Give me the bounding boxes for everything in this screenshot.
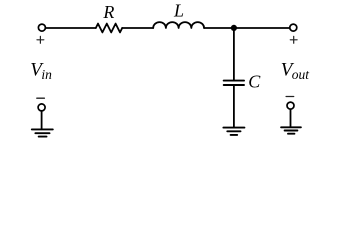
polarity - (Vout) [286, 96, 294, 98]
output terminal (bottom, Vout-) [287, 102, 294, 109]
node junction (inductor/capacitor/output) [231, 25, 237, 31]
inductor L [153, 22, 204, 28]
wire Vin- terminal to ground [41, 111, 43, 129]
polarity - (Vin) [37, 97, 45, 99]
wire Vout- terminal to ground [290, 109, 292, 127]
input terminal (bottom, Vin-) [38, 104, 45, 111]
capacitor C [224, 81, 244, 85]
resistor R [96, 24, 122, 33]
svg-text:Vout: Vout [281, 60, 311, 82]
input terminal (top, Vin+) [38, 24, 45, 31]
wire resistor to inductor [122, 27, 153, 29]
svg-text:R: R [102, 2, 114, 22]
svg-text:Vin: Vin [30, 60, 52, 82]
wire junction to capacitor [233, 29, 235, 80]
ground (output) [281, 127, 301, 133]
svg-text:L: L [173, 1, 184, 21]
svg-text:C: C [248, 72, 261, 92]
ground (input) [32, 129, 53, 136]
ground (capacitor) [223, 128, 244, 135]
wire capacitor to ground [233, 86, 235, 127]
wire input terminal to resistor [46, 27, 96, 29]
polarity + (Vout) [290, 36, 297, 43]
wire inductor to output terminal [204, 27, 290, 29]
polarity + (Vin) [37, 36, 44, 43]
output terminal (top, Vout+) [290, 24, 297, 31]
